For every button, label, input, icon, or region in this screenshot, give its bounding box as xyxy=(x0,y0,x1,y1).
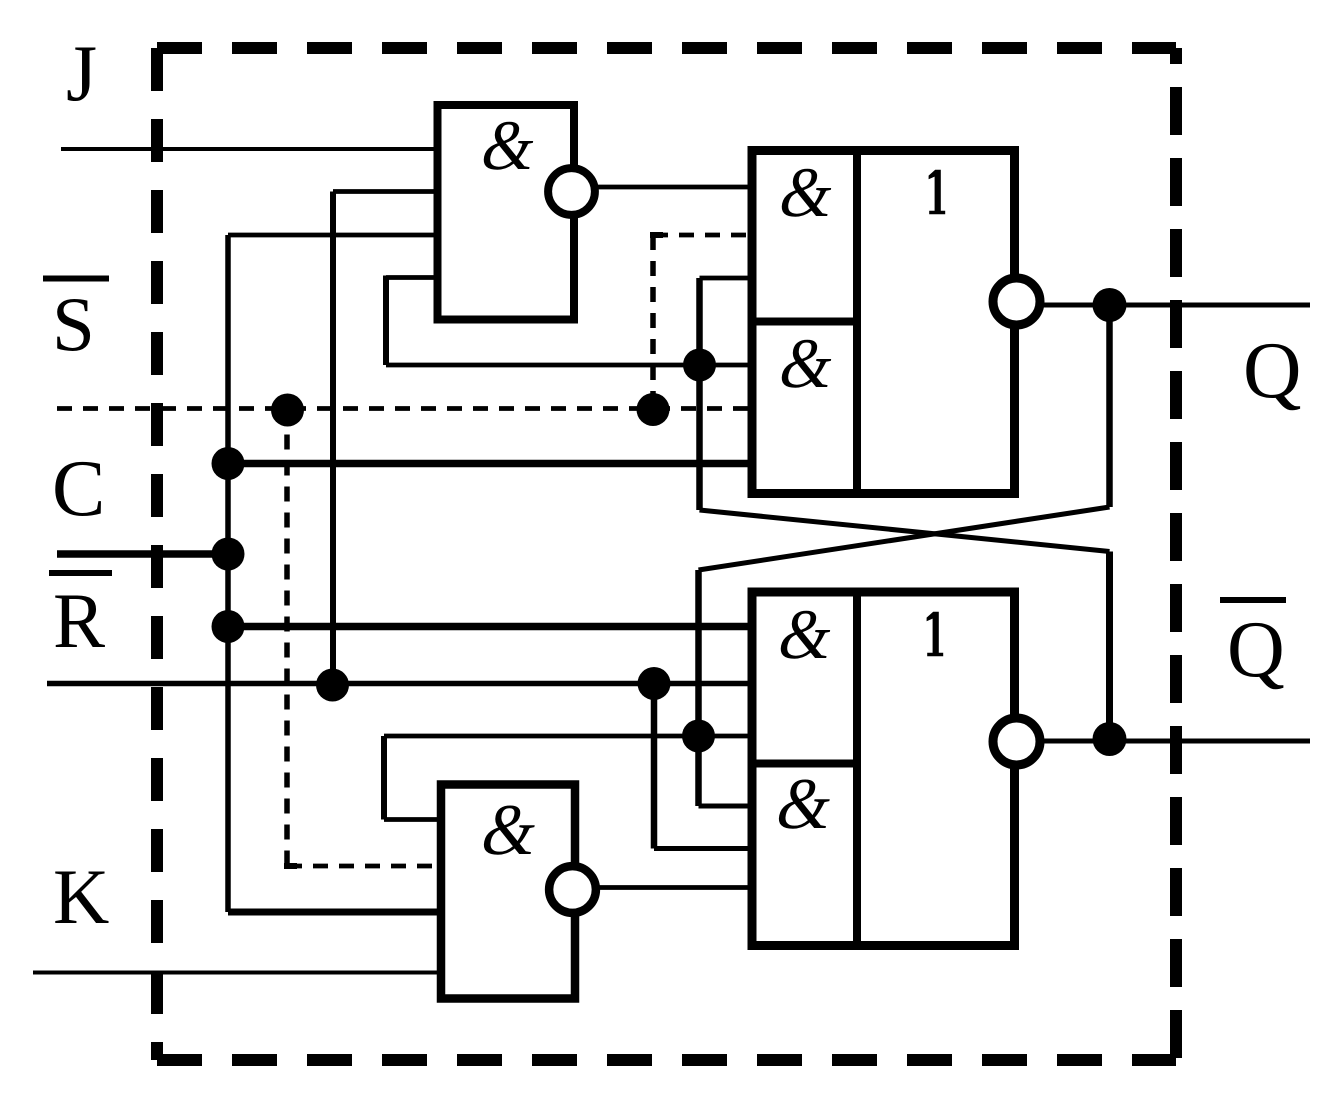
svg-text:C: C xyxy=(52,445,105,533)
svg-text:S: S xyxy=(52,281,95,367)
svg-text:R: R xyxy=(53,577,105,664)
svg-text:K: K xyxy=(53,853,109,940)
svg-text:J: J xyxy=(66,30,97,118)
svg-text:Q: Q xyxy=(1227,606,1285,694)
svg-text:Q: Q xyxy=(1243,325,1302,415)
